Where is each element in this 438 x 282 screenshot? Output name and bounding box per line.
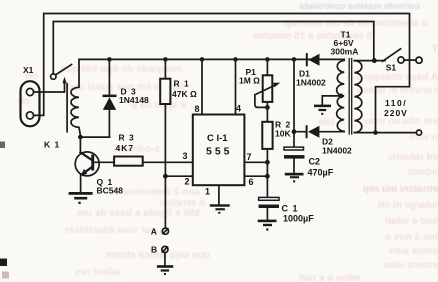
svg-text:470µF: 470µF <box>308 168 334 178</box>
svg-text:A: A <box>151 227 157 237</box>
svg-text:enola sien: enola sien <box>389 246 438 257</box>
svg-text:555 e ligada a base de um: 555 e ligada a base de um <box>77 208 200 219</box>
svg-text:7: 7 <box>247 152 252 162</box>
svg-text:5 segundos a 15 minutos: 5 segundos a 15 minutos <box>252 31 372 42</box>
svg-text:que seja lanicit etnem: que seja lanicit etnem <box>106 250 210 261</box>
svg-text:odnati: odnati <box>408 167 438 178</box>
svg-text:R 1: R 1 <box>174 79 190 89</box>
svg-text:47K Ω: 47K Ω <box>172 89 197 99</box>
svg-text:2: 2 <box>185 177 190 187</box>
svg-text:o valo: o valo <box>409 132 438 143</box>
svg-text:1000µF: 1000µF <box>283 214 314 224</box>
svg-text:1N4002: 1N4002 <box>322 146 352 156</box>
svg-text:8: 8 <box>195 104 200 114</box>
svg-text:1N4148: 1N4148 <box>119 95 149 105</box>
svg-text:C I-1: C I-1 <box>207 133 228 144</box>
svg-text:4K7: 4K7 <box>116 143 135 153</box>
svg-text:o aquecimento de um interrup: o aquecimento de um interrup <box>285 18 428 29</box>
svg-text:C 1: C 1 <box>282 204 299 214</box>
svg-text:555: 555 <box>206 146 233 158</box>
svg-text:6: 6 <box>249 177 254 187</box>
svg-text:T: T <box>432 44 438 55</box>
svg-text:4: 4 <box>236 104 241 114</box>
svg-text:1N4002: 1N4002 <box>296 78 326 88</box>
svg-text:etnatsni mu rop: etnatsni mu rop <box>363 184 438 195</box>
svg-text:BC548: BC548 <box>97 186 124 196</box>
svg-text:A base otisoporp: A base otisoporp <box>357 72 438 83</box>
svg-text:etnero ulan: etnero ulan <box>384 260 438 271</box>
svg-text:110/: 110/ <box>385 98 407 108</box>
svg-text:1M Ω: 1M Ω <box>239 76 260 86</box>
svg-text:K 1: K 1 <box>44 140 60 150</box>
svg-text:edno o e nidi: edno o e nidi <box>298 273 360 282</box>
svg-text:X1: X1 <box>23 65 34 75</box>
svg-text:C2: C2 <box>309 157 321 167</box>
svg-text:B: B <box>151 245 157 255</box>
svg-text:corrente maxima controlada: corrente maxima controlada <box>298 1 420 11</box>
svg-text:R 3: R 3 <box>119 133 135 143</box>
svg-text:sod e odatl: sod e odatl <box>385 216 438 227</box>
svg-text:3: 3 <box>183 151 188 161</box>
svg-text:300mA: 300mA <box>331 47 359 57</box>
svg-text:220V: 220V <box>384 108 408 118</box>
svg-text:1: 1 <box>205 187 210 197</box>
svg-text:sile: sile <box>318 117 335 128</box>
svg-text:ino 3 nus o: ino 3 nus o <box>385 232 438 243</box>
svg-text:odarge ni oti: odarge ni oti <box>378 200 438 211</box>
svg-text:S1: S1 <box>386 62 397 72</box>
svg-text:10K: 10K <box>275 129 291 139</box>
svg-text:ed ralucric: ed ralucric <box>387 152 438 163</box>
svg-text:adarit res: adarit res <box>75 267 120 278</box>
